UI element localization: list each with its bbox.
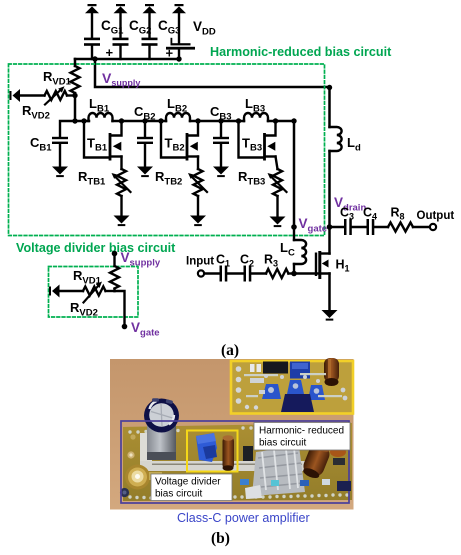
svg-text:Harmonic-reduced bias circuit: Harmonic-reduced bias circuit <box>210 45 392 59</box>
inset trimmer 2 <box>287 380 304 394</box>
label LC <box>280 240 295 259</box>
ground (left arrow) divider detail <box>49 285 60 298</box>
ground under CB3 <box>213 167 229 178</box>
wire: C2 to R3 <box>251 272 266 274</box>
output terminal <box>430 224 436 230</box>
microstrip vertical trace <box>140 433 152 471</box>
node: Vsupply tap on rail <box>92 56 97 61</box>
inductor LB1 <box>89 113 113 121</box>
inset traces <box>244 373 342 397</box>
caption: Class-C power amplifier <box>177 511 310 525</box>
svg-text:Input: Input <box>186 256 214 268</box>
resistor RVD2 (divider detail, variable) <box>60 282 115 303</box>
node: CB2 tap <box>142 118 147 123</box>
wire: input to C1 <box>205 272 220 274</box>
dark component bottom right <box>337 481 351 491</box>
svg-text:bias circuit: bias circuit <box>155 489 202 500</box>
resistor R8 <box>388 223 413 232</box>
svg-text:Voltage divider: Voltage divider <box>155 477 221 488</box>
inductor LB3 <box>244 113 268 121</box>
microstrip horizontal trace <box>140 461 308 471</box>
resistor RVD2 (main, variable) <box>20 86 75 104</box>
inset trimmer 1 <box>262 384 281 399</box>
ground (top) above CG3 <box>143 4 157 13</box>
label Vdrain (purple) <box>334 195 366 214</box>
label CG2 <box>129 18 151 37</box>
label: Voltage divider bias circuit (green) <box>16 241 176 255</box>
label C3 <box>340 206 354 222</box>
node: Vsupply corner above Ld <box>327 85 332 90</box>
svg-text:bias circuit: bias circuit <box>259 438 306 449</box>
svg-text:(a): (a) <box>221 342 239 359</box>
orange part top right <box>330 447 346 465</box>
label Output <box>417 210 455 222</box>
label Input <box>186 256 214 268</box>
wire: bias rail segment 1 <box>75 120 89 123</box>
node Vdrain <box>327 224 333 230</box>
dark connector bottom-left <box>120 488 129 497</box>
label C4 <box>363 206 377 222</box>
wire: drain vertical (Vsupply to Ld to drain) <box>328 87 331 254</box>
label R3 <box>264 253 278 269</box>
inset PCB (zoom view) <box>231 361 353 414</box>
label box: Voltage divider bias circuit <box>151 474 232 501</box>
resistor RTB2 (variable) <box>188 157 207 216</box>
node: chain output on rail <box>291 118 296 123</box>
label LB3 <box>245 96 265 115</box>
copper inductor right (tilted) <box>300 440 333 481</box>
node: RVD1/RVD2 junction <box>72 93 77 98</box>
node: TB1 drain on rail <box>119 118 124 123</box>
label RVD1 (main) <box>43 69 72 88</box>
node: bias rail left <box>72 118 77 123</box>
transistor H1 <box>315 251 330 279</box>
svg-text:(b): (b) <box>211 530 230 547</box>
inset pads left column <box>236 366 259 409</box>
inset dark component top <box>263 362 288 374</box>
ground under H1 <box>322 310 338 321</box>
node: TB1 gate tap <box>81 118 86 123</box>
inductor LB2 <box>166 113 190 121</box>
node: CB3 tap <box>218 118 223 123</box>
ground under RTB1 <box>114 216 130 227</box>
label LB2 <box>167 96 187 115</box>
label CG1 <box>101 18 124 37</box>
wire: bias rail segment 4 <box>268 120 294 123</box>
wire: bias rail segment 2 <box>113 120 167 123</box>
wire: H1 source to ground <box>328 274 331 311</box>
label RVD2 (main) <box>22 103 50 122</box>
resistor R3 <box>266 269 294 278</box>
node Vgate (divider detail) <box>122 324 128 330</box>
copper coil in small yellow box <box>223 435 235 471</box>
label CB2 <box>134 104 156 123</box>
label Vgate (purple) <box>299 216 328 235</box>
ground (top) above CG1 <box>85 4 99 13</box>
label VDD <box>193 19 216 38</box>
wire: C4 to R8 <box>374 226 388 228</box>
node: TB3 gate tap <box>236 118 241 123</box>
dark IC near center <box>243 446 253 461</box>
label RVD1 (divider detail) <box>73 268 102 287</box>
wire: C1 to C2 <box>227 272 243 274</box>
label TB2 <box>165 136 185 154</box>
capacitor C2 <box>244 266 252 282</box>
wire: Vsupply feed to Ld <box>95 59 330 87</box>
transistor TB3 <box>239 121 276 161</box>
label C1 <box>216 253 230 269</box>
node: TB2 drain on rail <box>195 118 200 123</box>
battery VDD <box>166 13 196 61</box>
node Vsupply (divider detail) <box>112 251 118 257</box>
label R8 <box>391 206 405 222</box>
dashed box: voltage divider bias circuit <box>49 267 139 318</box>
wire: divider node to Vgate <box>115 291 125 327</box>
node: gate junction <box>291 271 297 277</box>
inset blue trimmer top <box>290 362 310 379</box>
label LB1 <box>89 96 110 115</box>
wire: C3 to C4 <box>352 226 367 228</box>
capacitor CB1 <box>52 121 75 167</box>
capacitor CB2 <box>137 121 153 167</box>
label C2 <box>240 253 254 269</box>
ground under RTB2 <box>190 216 206 227</box>
label RVD2 (divider detail) <box>70 300 98 319</box>
resistor RVD1 (main) <box>71 66 80 96</box>
ground (left arrow) for RVD2 <box>10 89 21 102</box>
transistor TB1 <box>84 121 122 161</box>
label RTB1 <box>78 169 106 188</box>
capacitor C1 <box>220 266 228 282</box>
node: TB3 drain on rail <box>273 118 278 123</box>
label (b) <box>211 530 230 547</box>
ground (top) above CG2 <box>114 4 128 13</box>
wire: Vdrain to C3 <box>330 226 345 228</box>
transistor TB2 <box>161 121 198 161</box>
purple annotation box (Class-C power amplifier) <box>121 421 349 503</box>
capacitor CG3 <box>142 13 158 59</box>
node: battery to rail <box>176 56 181 61</box>
label (a) <box>221 342 239 359</box>
input terminal <box>198 270 204 276</box>
SMA connector <box>125 465 162 490</box>
wire: gate junction to H1 <box>294 272 330 274</box>
svg-text:Voltage divider bias circuit: Voltage divider bias circuit <box>16 241 176 255</box>
electrolytic capacitor body <box>147 418 176 460</box>
inductor LC <box>294 227 306 274</box>
ground (top) above VDD battery <box>172 4 186 13</box>
small blue SMD row <box>213 479 330 486</box>
label: Harmonic-reduced bias circuit (green) <box>210 45 392 59</box>
capacitor CG1 <box>84 13 100 59</box>
wire: R8 to output <box>413 226 430 228</box>
svg-text:Class-C power amplifier: Class-C power amplifier <box>177 511 310 525</box>
inset white SMD parts <box>250 364 264 383</box>
label CB3 <box>210 104 232 123</box>
inset copper inductor <box>324 358 339 386</box>
wire: rail corner down to RVD1 <box>74 59 77 66</box>
svg-text:Output: Output <box>417 210 455 222</box>
label Vsupply (divider detail, purple) <box>121 250 161 269</box>
capacitor CG2 (polarized) <box>106 13 129 60</box>
inductor Ld <box>330 127 342 151</box>
electrolytic capacitor top <box>144 398 179 432</box>
gold pad small <box>127 434 135 458</box>
label RTB2 <box>155 169 182 188</box>
label CG3 <box>158 18 180 37</box>
label TB1 <box>87 136 108 154</box>
dashed box: harmonic-reduced bias circuit <box>9 64 325 236</box>
wire: chain output down to Vgate <box>293 121 296 227</box>
ground under RTB3 <box>270 217 286 228</box>
main PCB board <box>123 423 352 501</box>
resistor RVD1 (divider detail) <box>110 254 119 292</box>
inset silver pads scattered <box>259 374 347 400</box>
wire: divider node down to bias rail <box>74 96 77 122</box>
PCB edge pads bottom row <box>128 493 348 499</box>
inset trimmer 3 <box>308 385 325 400</box>
node: TB2 gate tap <box>158 118 163 123</box>
ground under CB1 <box>52 167 68 178</box>
label Vsupply (purple) <box>102 70 140 88</box>
svg-text:Harmonic- reduced: Harmonic- reduced <box>259 426 344 437</box>
inset navy block bottom <box>281 394 314 412</box>
label TB3 <box>242 136 262 154</box>
capacitor C3 <box>344 219 352 235</box>
heatsink / solder blob <box>245 446 305 499</box>
resistor RTB1 (variable) <box>112 157 131 216</box>
blue trimmer in small yellow box <box>196 433 217 462</box>
capacitor CB3 <box>213 121 229 167</box>
label Vgate (divider detail, purple) <box>131 320 160 339</box>
label Ld <box>347 135 361 154</box>
small yellow box on main PCB <box>187 431 238 472</box>
capacitor C4 <box>367 219 375 235</box>
photo background (wood) <box>110 359 354 510</box>
label CB1 <box>30 135 52 154</box>
wire: VDD top rail <box>75 58 179 61</box>
node Vgate <box>291 224 297 230</box>
ground under CB2 <box>137 167 153 178</box>
label box: Harmonic- reduced bias circuit <box>254 423 350 451</box>
wire: bias rail segment 3 <box>190 120 244 123</box>
PCB edge pads top row <box>128 424 344 433</box>
label H1 <box>336 258 350 274</box>
resistor RTB3 (variable) <box>268 157 287 218</box>
label RTB3 <box>238 169 265 188</box>
